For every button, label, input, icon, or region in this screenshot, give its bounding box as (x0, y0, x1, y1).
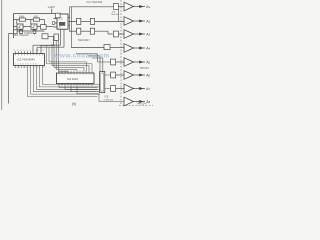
label under row1 box (111, 12, 119, 17)
pin number text IC3 top (14, 50, 44, 52)
resistor R3 (buffer 3 input) (113, 31, 124, 37)
pin stubs IC4 top (59, 71, 92, 73)
wire (IC2 bottom drops) (61, 29, 65, 47)
buffer amplifier U3 (124, 30, 134, 39)
svg-text:9 7 6 5 3 2 4 13 12: 9 7 6 5 3 2 4 13 12 (14, 50, 44, 52)
svg-text:74HC04: 74HC04 (111, 14, 119, 16)
wire (output A5) (134, 61, 146, 64)
wire (feedback drop to bottom) (8, 34, 13, 104)
counter IC3 74HC4040 (14, 54, 45, 66)
svg-text:74HC04: 74HC04 (137, 103, 147, 106)
svg-text:A4: A4 (146, 46, 150, 50)
buffer amplifier U7 (124, 84, 134, 93)
resistor R7 (buffer 7 input) (111, 86, 124, 92)
wire (row1 from IC2) (68, 7, 113, 26)
node A4 (146, 46, 150, 50)
wire (output A8) (134, 100, 146, 103)
buffer amplifier U4 (124, 44, 134, 53)
wire (box1 split down to row2) (118, 9, 120, 21)
resistor row3 (81, 28, 113, 34)
pin stubs IC3 top (16, 51, 31, 53)
pin stubs IC4 bottom (59, 84, 92, 86)
buffer amplifier U6 (124, 71, 134, 80)
watermark www.cndzz.com (54, 52, 110, 59)
svg-text:A2: A2 (146, 19, 150, 23)
pin number text IC3 bottom (14, 67, 45, 69)
PLL IC4 4046 (57, 73, 95, 84)
wire (output A6) (134, 74, 146, 77)
wire (long vertical pair) (70, 7, 72, 48)
wire (output A3) (134, 33, 146, 36)
node A2 (146, 19, 150, 23)
svg-text:www.cndzz.com: www.cndzz.com (54, 52, 110, 59)
node A3 (146, 32, 150, 36)
label 74HC04 row5 (140, 67, 150, 70)
wire (to IC3 pins b) (37, 47, 64, 53)
svg-text:A1: A1 (146, 5, 150, 9)
wire (output A2) (134, 20, 146, 23)
pin box (IC2 top-left) (55, 13, 60, 18)
wire (row1 into box) (111, 6, 114, 8)
wire (output A1) (134, 5, 146, 8)
component box mid (42, 34, 54, 46)
inverter gate U1c (14, 30, 18, 34)
wire (extra bus verticals) (47, 45, 93, 70)
svg-text:A7: A7 (146, 87, 150, 91)
buffer amplifier U8 (124, 97, 134, 106)
wire (osc box bottom border) (14, 30, 45, 32)
pin square IC2 left (52, 22, 55, 25)
wire (osc out to IC2) (41, 25, 54, 30)
svg-text:1 15 14 6 13 12 11 10: 1 15 14 6 13 12 11 10 (14, 67, 45, 69)
svg-text:A6: A6 (146, 73, 150, 77)
oscillator module IC2 (57, 14, 68, 29)
svg-text:A8: A8 (146, 100, 150, 104)
connector box IC5 (100, 72, 105, 93)
node A5 (146, 60, 150, 64)
scan edge line (left margin) (1, 0, 3, 110)
svg-text:1 2 3 4 5 6 7 8 9: 1 2 3 4 5 6 7 8 9 (15, 64, 37, 66)
svg-text:IC4 74HC244: IC4 74HC244 (87, 0, 103, 4)
wire (to IC3 pins a) (33, 45, 61, 53)
pin stubs IC3 bottom-left (16, 65, 25, 68)
wire (bus to buffer6) (88, 56, 113, 75)
resistor row4 (104, 45, 124, 50)
node A8 (146, 100, 150, 104)
buffer amplifier U5 (124, 58, 134, 67)
wire (bus to buffer5) (76, 54, 113, 62)
svg-text:74HC04: 74HC04 (140, 67, 150, 70)
caption (b) (72, 102, 76, 106)
node A6 (146, 73, 150, 77)
capacitor C1 (20, 29, 23, 34)
label IC6 74HC04 (104, 95, 114, 101)
resistor R5 (buffer 5 input) (111, 59, 124, 65)
buffer amplifier U2 (124, 17, 134, 26)
resistor 240k (19, 15, 26, 21)
wire (resistor row) (14, 20, 45, 27)
buffer amplifier U1 (124, 2, 134, 11)
svg-text:A3: A3 (146, 32, 150, 36)
wire (bus to buffer7) (92, 58, 113, 89)
inverter gate U1a (17, 24, 23, 29)
component box mid2 (54, 34, 58, 40)
pin stubs IC2 left (54, 19, 58, 28)
wire (IC3 output bus staircase) (28, 65, 103, 96)
dashed boundary of buffer section (119, 0, 153, 106)
wire (V+ rail top) (14, 13, 58, 15)
wire (gate row) (14, 26, 41, 28)
resistor row2 (81, 18, 124, 24)
node A7 (146, 87, 150, 91)
svg-text:(74HC04): (74HC04) (104, 99, 114, 101)
label 74HC04 row8 (137, 103, 147, 106)
resistor 82k (33, 15, 39, 21)
svg-text:IC6: IC6 (105, 95, 109, 98)
wire (output A4) (134, 47, 146, 50)
svg-text:(b): (b) (72, 102, 76, 106)
label (top tiny) (87, 0, 103, 4)
capacitor C3 (row2) (77, 18, 81, 24)
inverter gate U1b (31, 24, 37, 29)
wire (IC4 bottom bus) (59, 86, 100, 102)
svg-text:IC3 74HC4040: IC3 74HC4040 (17, 57, 35, 61)
wire (bus into IC4 top) (52, 40, 89, 73)
label 5.5kHz (25, 32, 33, 35)
inner pin ticks IC4 (59, 73, 92, 75)
wire (to IC3 pins c) (41, 45, 54, 53)
svg-text:240k: 240k (19, 15, 25, 18)
svg-text:+12V: +12V (48, 5, 55, 9)
wire (row4) (71, 47, 104, 49)
label IC1 74HC14 (14, 33, 29, 37)
svg-text:74HC4017: 74HC4017 (78, 38, 91, 42)
node A1 (146, 5, 150, 9)
svg-text:IC4 4046: IC4 4046 (67, 77, 78, 81)
capacitor C2 (33, 29, 36, 34)
label 74HC4017 (78, 38, 91, 42)
capacitor C4 row3 (69, 28, 81, 34)
wire (bus to buffer8) (99, 101, 124, 103)
wire (output A7) (134, 87, 146, 90)
resistor R1 (buffer 1 input) (113, 4, 124, 10)
node +12V (48, 5, 55, 14)
wire (left border) (13, 14, 15, 39)
inner pin ticks IC3 (16, 54, 43, 56)
svg-text:A5: A5 (146, 60, 150, 64)
resistor R6 (buffer 6 input) (111, 72, 124, 78)
